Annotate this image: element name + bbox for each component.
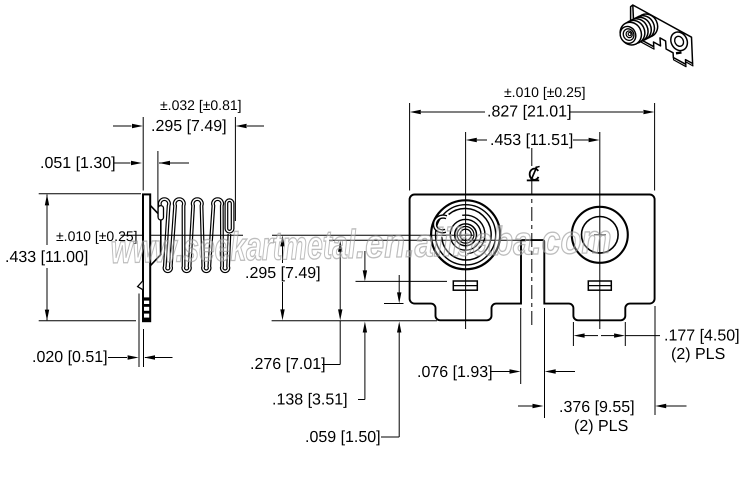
- svg-text:.276 [7.01]: .276 [7.01]: [250, 356, 326, 373]
- svg-text:.295 [7.49]: .295 [7.49]: [151, 118, 227, 135]
- svg-text:.en.alibaba.com: .en.alibaba.com: [355, 218, 612, 267]
- svg-text:.138 [3.51]: .138 [3.51]: [272, 392, 348, 409]
- svg-text:.076 [1.93]: .076 [1.93]: [417, 364, 493, 381]
- svg-text:.376 [9.55]: .376 [9.55]: [559, 399, 635, 416]
- svg-text:.827 [21.01]: .827 [21.01]: [487, 104, 572, 121]
- svg-text:.020 [0.51]: .020 [0.51]: [32, 349, 108, 366]
- svg-text:.059 [1.50]: .059 [1.50]: [305, 429, 381, 446]
- svg-text:www.seekartmetal: www.seekartmetal: [110, 223, 356, 272]
- svg-text:.433 [11.00]: .433 [11.00]: [5, 249, 88, 266]
- svg-text:.051 [1.30]: .051 [1.30]: [40, 155, 116, 172]
- svg-text:.453 [11.51]: .453 [11.51]: [490, 132, 573, 149]
- svg-text:(2) PLS: (2) PLS: [574, 418, 628, 435]
- svg-text:±.032 [±0.81]: ±.032 [±0.81]: [160, 97, 242, 113]
- svg-text:(2) PLS: (2) PLS: [671, 346, 725, 363]
- svg-text:±.010 [±0.25]: ±.010 [±0.25]: [504, 84, 586, 100]
- svg-text:.177 [4.50]: .177 [4.50]: [664, 328, 740, 345]
